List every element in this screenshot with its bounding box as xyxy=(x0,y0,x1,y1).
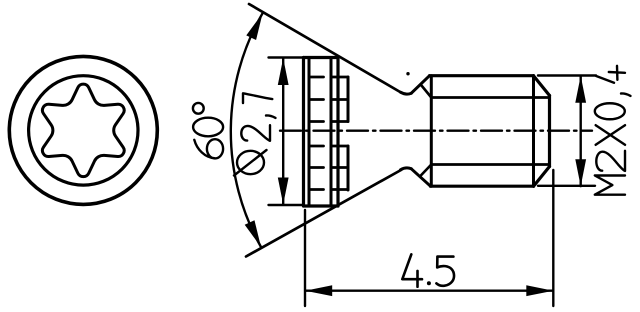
text dia2,7: glyph 7 xyxy=(243,93,272,103)
thread runout top xyxy=(422,86,432,98)
torx lobe line 2 xyxy=(309,98,348,101)
thread root top xyxy=(431,96,549,99)
centerline axis xyxy=(280,129,592,131)
end chamfer bottom xyxy=(534,167,550,187)
text M2X0,4: glyph X xyxy=(596,125,625,145)
recess opening line xyxy=(308,58,311,207)
recess bottom line xyxy=(330,58,333,207)
dim M2 ext top xyxy=(538,74,596,76)
thread chamfer top xyxy=(411,76,429,94)
text M2X0,4: glyph 0 xyxy=(595,103,625,119)
countersink cone top + 60deg extension xyxy=(249,4,401,93)
text dia2,7: diameter symbol xyxy=(234,150,267,176)
recess circle (front view) xyxy=(29,76,138,185)
head left face xyxy=(302,58,305,207)
thread root bottom xyxy=(431,163,549,166)
torx lobe line 3 xyxy=(309,120,348,123)
arrowhead phi top xyxy=(278,58,289,85)
chamfer start line xyxy=(532,76,535,187)
dim 60deg arc xyxy=(231,13,263,247)
neck fillet bottom xyxy=(401,168,412,170)
recess depth line lower xyxy=(347,146,350,190)
countersink cone bottom + 60deg extension xyxy=(246,170,401,257)
dim 4.5 ext left xyxy=(304,210,306,306)
text 60deg: degree sign xyxy=(193,103,204,114)
head right face xyxy=(336,58,339,207)
text dia2,7: comma xyxy=(266,115,276,117)
text M2X0,4: glyph M xyxy=(595,176,625,195)
torx lobe line 5 xyxy=(309,166,348,169)
dim phi2.7 ext bottom xyxy=(269,204,304,206)
neck fillet top xyxy=(401,92,412,94)
arrowhead 4.5 right xyxy=(526,285,553,296)
arrowhead arc bottom xyxy=(245,220,261,247)
text M2X0,4: glyph 2 xyxy=(596,151,625,171)
dim 4.5 line xyxy=(305,290,553,292)
end chamfer top xyxy=(534,76,550,96)
arrowhead m2 bottom xyxy=(575,159,586,186)
end face xyxy=(548,96,551,167)
dim 4.5 ext right xyxy=(552,170,554,306)
head bottom edge xyxy=(304,204,339,207)
thread crest top xyxy=(430,74,534,77)
arrowhead 4.5 left xyxy=(305,285,332,296)
text 4.5: glyph 5 xyxy=(436,257,454,286)
dim phi2.7 ext top xyxy=(269,56,304,58)
dim M2 ext bottom xyxy=(538,185,595,187)
dim M2 line xyxy=(580,76,582,187)
text M2X0,4: comma xyxy=(621,93,631,95)
dim phi2.7 line xyxy=(282,58,284,205)
text 60deg: glyph 0 xyxy=(193,118,223,137)
head outer circle (front view) xyxy=(9,56,157,204)
thread chamfer bottom xyxy=(411,169,430,186)
torx lobe line 6 xyxy=(309,188,348,191)
thread start line xyxy=(430,76,433,187)
dot mark xyxy=(406,72,409,75)
torx lobe line 4 xyxy=(309,145,348,148)
arrowhead m2 top xyxy=(575,76,586,103)
arrowhead arc top xyxy=(246,13,262,40)
torx lobe line 1 xyxy=(309,76,348,79)
arrowhead phi bottom xyxy=(278,178,289,205)
text 4.5: glyph 4 xyxy=(402,254,422,286)
text dia2,7: glyph 2 xyxy=(241,125,270,141)
torx recess star xyxy=(42,84,124,176)
thread runout bottom xyxy=(421,165,432,176)
recess depth line upper xyxy=(347,77,350,122)
text 4.5: decimal point xyxy=(427,281,431,285)
text M2X0,4: glyph 4 xyxy=(596,66,625,83)
thread crest bottom xyxy=(431,185,534,188)
head top edge xyxy=(304,56,339,59)
text 60deg: glyph 6 xyxy=(194,139,223,158)
